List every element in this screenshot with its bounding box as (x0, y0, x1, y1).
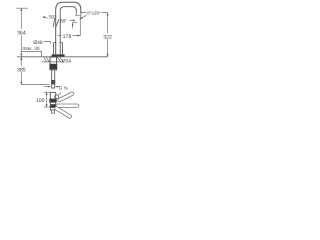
lever handle (53, 18, 59, 27)
base flange (52, 54, 65, 57)
svg-text:G ⅜: G ⅜ (59, 85, 69, 91)
svg-text:100: 100 (36, 98, 45, 104)
right dimension line 322 (107, 13, 109, 57)
left dimension line 364/385 (20, 8, 22, 84)
fitting circle (55, 95, 59, 99)
lower hose (54, 106, 72, 119)
svg-text:178: 178 (63, 34, 72, 40)
middle hose (56, 104, 79, 107)
threaded tail G3/8 (52, 70, 55, 88)
base cylinder Ø46 (54, 43, 63, 55)
svg-text:Ø46: Ø46 (33, 40, 43, 46)
svg-text:364: 364 (17, 30, 26, 36)
counter top line (17, 56, 108, 58)
small up arrow at spout outlet (72, 23, 74, 29)
spout outlet tip (76, 14, 81, 16)
faucet riser inner line (60, 7, 76, 55)
svg-text:322: 322 (103, 34, 112, 40)
lower view: shank body (50, 92, 55, 110)
under-counter shank with nut (50, 57, 57, 70)
top extension line (81, 12, 108, 14)
dimension 178 (58, 35, 81, 37)
counter bottom line (42, 61, 63, 63)
svg-text:50°: 50° (49, 14, 56, 19)
label 8°±28° with leader (87, 10, 102, 16)
svg-text:68°: 68° (60, 19, 67, 24)
svg-text:385: 385 (17, 67, 26, 73)
upper hose (57, 91, 74, 102)
label 322 (102, 33, 114, 39)
lower view: 100 dimension (46, 92, 48, 107)
shank tail lower view (52, 110, 55, 113)
svg-text:Ø34: Ø34 (62, 58, 71, 64)
svg-text:8°±28°: 8°±28° (87, 11, 101, 16)
label 385 (16, 66, 28, 72)
counter hatching (44, 57, 64, 62)
label 364 (16, 29, 28, 35)
faucet spout and riser outline (56, 2, 81, 54)
